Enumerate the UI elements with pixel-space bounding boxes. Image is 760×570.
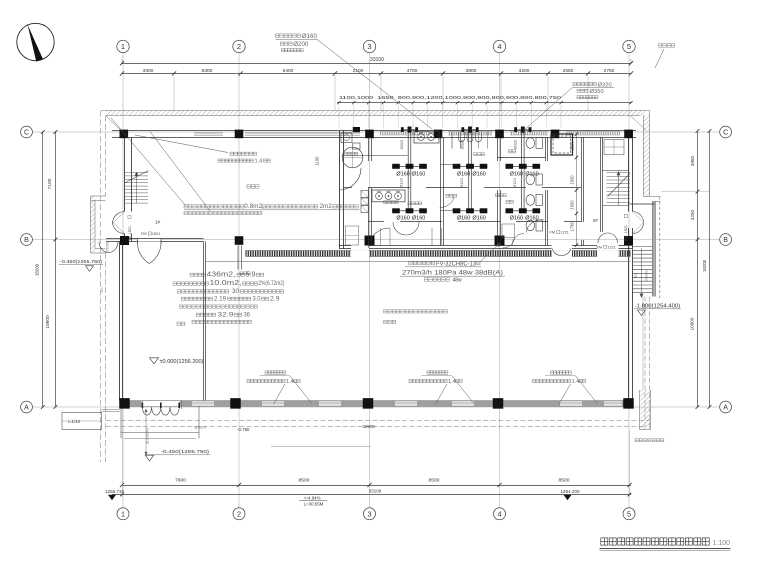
svg-text:1#: 1# [155, 219, 161, 224]
svg-text:-1.800(1254.400): -1.800(1254.400) [635, 303, 681, 309]
svg-text:2.19: 2.19 [214, 295, 226, 302]
svg-text:B: B [24, 237, 29, 244]
svg-text:A: A [24, 405, 29, 412]
svg-text:3800: 3800 [466, 68, 477, 74]
svg-text:4: 4 [497, 42, 501, 51]
svg-text:1739: 1739 [570, 222, 575, 232]
svg-text:C: C [24, 130, 29, 137]
svg-text:2: 2 [237, 509, 241, 518]
svg-text:3300: 3300 [143, 68, 154, 74]
svg-text:Ø350: Ø350 [590, 89, 604, 95]
svg-text:32.9: 32.9 [218, 311, 234, 318]
svg-text:Ø120: Ø120 [399, 177, 404, 187]
svg-text:8500: 8500 [559, 478, 570, 484]
svg-text:10.0m2,: 10.0m2, [210, 280, 242, 287]
svg-text:FM: FM [597, 245, 602, 249]
svg-text:Ø160: Ø160 [457, 171, 470, 177]
svg-text:2550: 2550 [563, 68, 574, 74]
svg-text:Ø120: Ø120 [459, 177, 464, 187]
svg-text:Ø160: Ø160 [396, 216, 409, 222]
svg-text:1221: 1221 [560, 231, 568, 235]
svg-text:8500: 8500 [429, 478, 440, 484]
svg-text:436m2,: 436m2, [207, 271, 236, 278]
svg-text:5.9: 5.9 [246, 271, 256, 278]
svg-text:32900: 32900 [363, 424, 376, 429]
svg-text:0.8m2,: 0.8m2, [244, 203, 264, 210]
svg-text:1.4: 1.4 [286, 379, 294, 385]
svg-text:@150.3: @150.3 [194, 426, 206, 430]
svg-text:Ø160: Ø160 [510, 216, 523, 222]
svg-text:Ø160: Ø160 [472, 171, 485, 177]
svg-text:-0.450(1255.750): -0.450(1255.750) [60, 259, 103, 264]
svg-text:1500: 1500 [570, 175, 575, 185]
svg-text:18200: 18200 [35, 263, 40, 276]
svg-text:3200: 3200 [519, 68, 530, 74]
svg-text:1: 1 [121, 42, 125, 51]
svg-text:1100: 1100 [315, 156, 320, 166]
svg-text:1254.200: 1254.200 [561, 489, 580, 495]
svg-text:C: C [723, 130, 728, 137]
svg-text:Ø320: Ø320 [512, 139, 517, 149]
svg-text:Ø200: Ø200 [293, 41, 309, 48]
svg-text:15b300: 15b300 [645, 270, 649, 281]
svg-text:33100: 33100 [369, 489, 382, 494]
svg-text:FM: FM [141, 232, 146, 236]
svg-text:±0.000(1256.200): ±0.000(1256.200) [160, 359, 204, 365]
svg-text:18200: 18200 [702, 259, 707, 272]
svg-text:A: A [723, 405, 728, 412]
svg-text:B: B [723, 237, 728, 244]
svg-text:Ø120: Ø120 [512, 177, 517, 187]
svg-text:2%(6.72m2): 2%(6.72m2) [259, 280, 285, 287]
svg-text:FM: FM [550, 231, 555, 235]
svg-text:Ø160: Ø160 [412, 171, 425, 177]
svg-text:Ø160: Ø160 [457, 216, 470, 222]
svg-text:30: 30 [232, 288, 239, 295]
svg-text:5: 5 [627, 509, 631, 518]
svg-text:33100: 33100 [370, 57, 384, 63]
svg-text:Ø320: Ø320 [399, 139, 404, 149]
svg-text:5: 5 [627, 42, 631, 51]
svg-text:10900: 10900 [690, 317, 695, 330]
svg-text:8500: 8500 [299, 478, 310, 484]
svg-text:Ø160: Ø160 [302, 33, 318, 40]
svg-text:FM 1521: FM 1521 [128, 226, 132, 242]
svg-text:36: 36 [244, 311, 251, 318]
svg-text:1.4: 1.4 [448, 379, 456, 385]
svg-text:7600: 7600 [175, 478, 186, 484]
svg-text:2#: 2# [593, 218, 599, 223]
svg-text:3: 3 [368, 509, 372, 518]
svg-text:FM 1521: FM 1521 [624, 225, 628, 241]
svg-text:@150b300: @150b300 [146, 428, 150, 444]
svg-text:1.4: 1.4 [572, 379, 580, 385]
svg-text:150: 150 [634, 273, 638, 279]
svg-text:Ø160: Ø160 [472, 216, 485, 222]
svg-text:6300: 6300 [202, 68, 213, 74]
svg-text:1.4: 1.4 [255, 158, 263, 164]
svg-text:3.0: 3.0 [253, 295, 261, 302]
svg-text:4: 4 [498, 509, 502, 518]
svg-text:-0.450(1255.750): -0.450(1255.750) [161, 449, 210, 454]
svg-text:i=4.94%: i=4.94% [305, 495, 321, 500]
svg-text:48w: 48w [453, 278, 463, 284]
svg-text:3250: 3250 [690, 209, 695, 220]
svg-text:7100: 7100 [47, 178, 53, 189]
svg-text:Ø160: Ø160 [510, 171, 523, 177]
svg-text:1100,1000 1650 900,900,1200,: 1100,1000 1650 900,900,1200,1000,900,900… [339, 95, 562, 100]
svg-text:Ø160: Ø160 [412, 216, 425, 222]
svg-text:1221: 1221 [607, 245, 615, 249]
svg-text:2.9: 2.9 [270, 295, 280, 302]
svg-text:-0.750: -0.750 [237, 427, 250, 432]
svg-text:Ø160: Ø160 [396, 171, 409, 177]
svg-text:270m3/h 180Pa 48w 38dB(A): 270m3/h 180Pa 48w 38dB(A) [402, 270, 503, 277]
svg-text:1500: 1500 [570, 200, 575, 210]
svg-text:4700: 4700 [407, 68, 418, 74]
svg-text:2m2.: 2m2. [320, 203, 334, 210]
svg-text:2: 2 [237, 42, 241, 51]
svg-text:6400: 6400 [283, 68, 294, 74]
svg-text:2750: 2750 [604, 68, 615, 74]
svg-text:1: 1 [121, 509, 125, 518]
svg-text:15b300: 15b300 [106, 241, 110, 252]
svg-text:3950: 3950 [690, 155, 695, 166]
svg-text:1:100: 1:100 [713, 540, 731, 547]
svg-text:i=1/10: i=1/10 [68, 419, 81, 424]
svg-text:1521: 1521 [152, 232, 160, 236]
svg-text:10900: 10900 [45, 315, 51, 329]
svg-text:300: 300 [100, 287, 104, 292]
svg-text:3: 3 [367, 42, 371, 51]
svg-text:2850: 2850 [570, 141, 575, 151]
svg-text:L=30.55M: L=30.55M [304, 502, 324, 507]
svg-text:1255.710: 1255.710 [105, 489, 124, 495]
